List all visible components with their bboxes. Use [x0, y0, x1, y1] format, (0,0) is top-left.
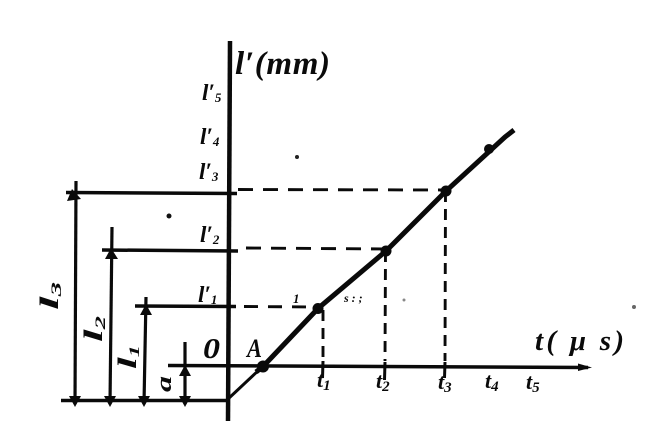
- dashed horizontal from l'1 to line: [244, 305, 318, 308]
- svg-text:s : ;: s : ;: [343, 291, 363, 305]
- tick t1: [321, 361, 325, 378]
- dashed vertical at t3: [444, 191, 447, 361]
- svg-text:a: a: [151, 376, 176, 392]
- data point t3: [441, 186, 452, 197]
- tick t2: [383, 362, 387, 380]
- svg-text:0: 0: [203, 333, 220, 365]
- left horizontal line at l'1 level: [135, 304, 236, 308]
- y-axis: [228, 41, 230, 421]
- dimension line l2: [110, 227, 112, 404]
- dashed horizontal from l'3 to line: [238, 188, 445, 191]
- main fitted line: [256, 130, 514, 372]
- x-axis arrowhead: [578, 364, 592, 372]
- noise speck 2: [295, 155, 299, 159]
- data point t1: [313, 303, 324, 314]
- dimension line l1: [144, 297, 146, 404]
- dimension line a: [183, 342, 186, 404]
- left horizontal line at l'3 level: [66, 193, 237, 194]
- data point at A: [257, 361, 269, 373]
- left horizontal line at l'2 level: [102, 250, 238, 251]
- svg-text:1: 1: [293, 291, 300, 306]
- data point t2: [381, 246, 392, 257]
- dimension line l3: [75, 181, 76, 404]
- dashed horizontal from l'2 to line: [246, 248, 388, 249]
- noise speck 3: [403, 299, 406, 302]
- bottom dimension baseline: [61, 399, 227, 403]
- x-axis: [168, 366, 588, 368]
- dashed vertical at t2: [384, 251, 387, 361]
- dashed vertical at t1: [322, 310, 325, 360]
- svg-text:t( μ s): t( μ s): [535, 325, 624, 357]
- tick t3: [443, 362, 447, 378]
- main fitted line lower segment: [228, 369, 260, 399]
- noise speck 4: [632, 305, 636, 309]
- svg-text:l′(mm): l′(mm): [235, 46, 330, 82]
- noise speck 1: [167, 214, 172, 219]
- data point offset above line: [484, 144, 494, 154]
- svg-text:A: A: [245, 334, 262, 363]
